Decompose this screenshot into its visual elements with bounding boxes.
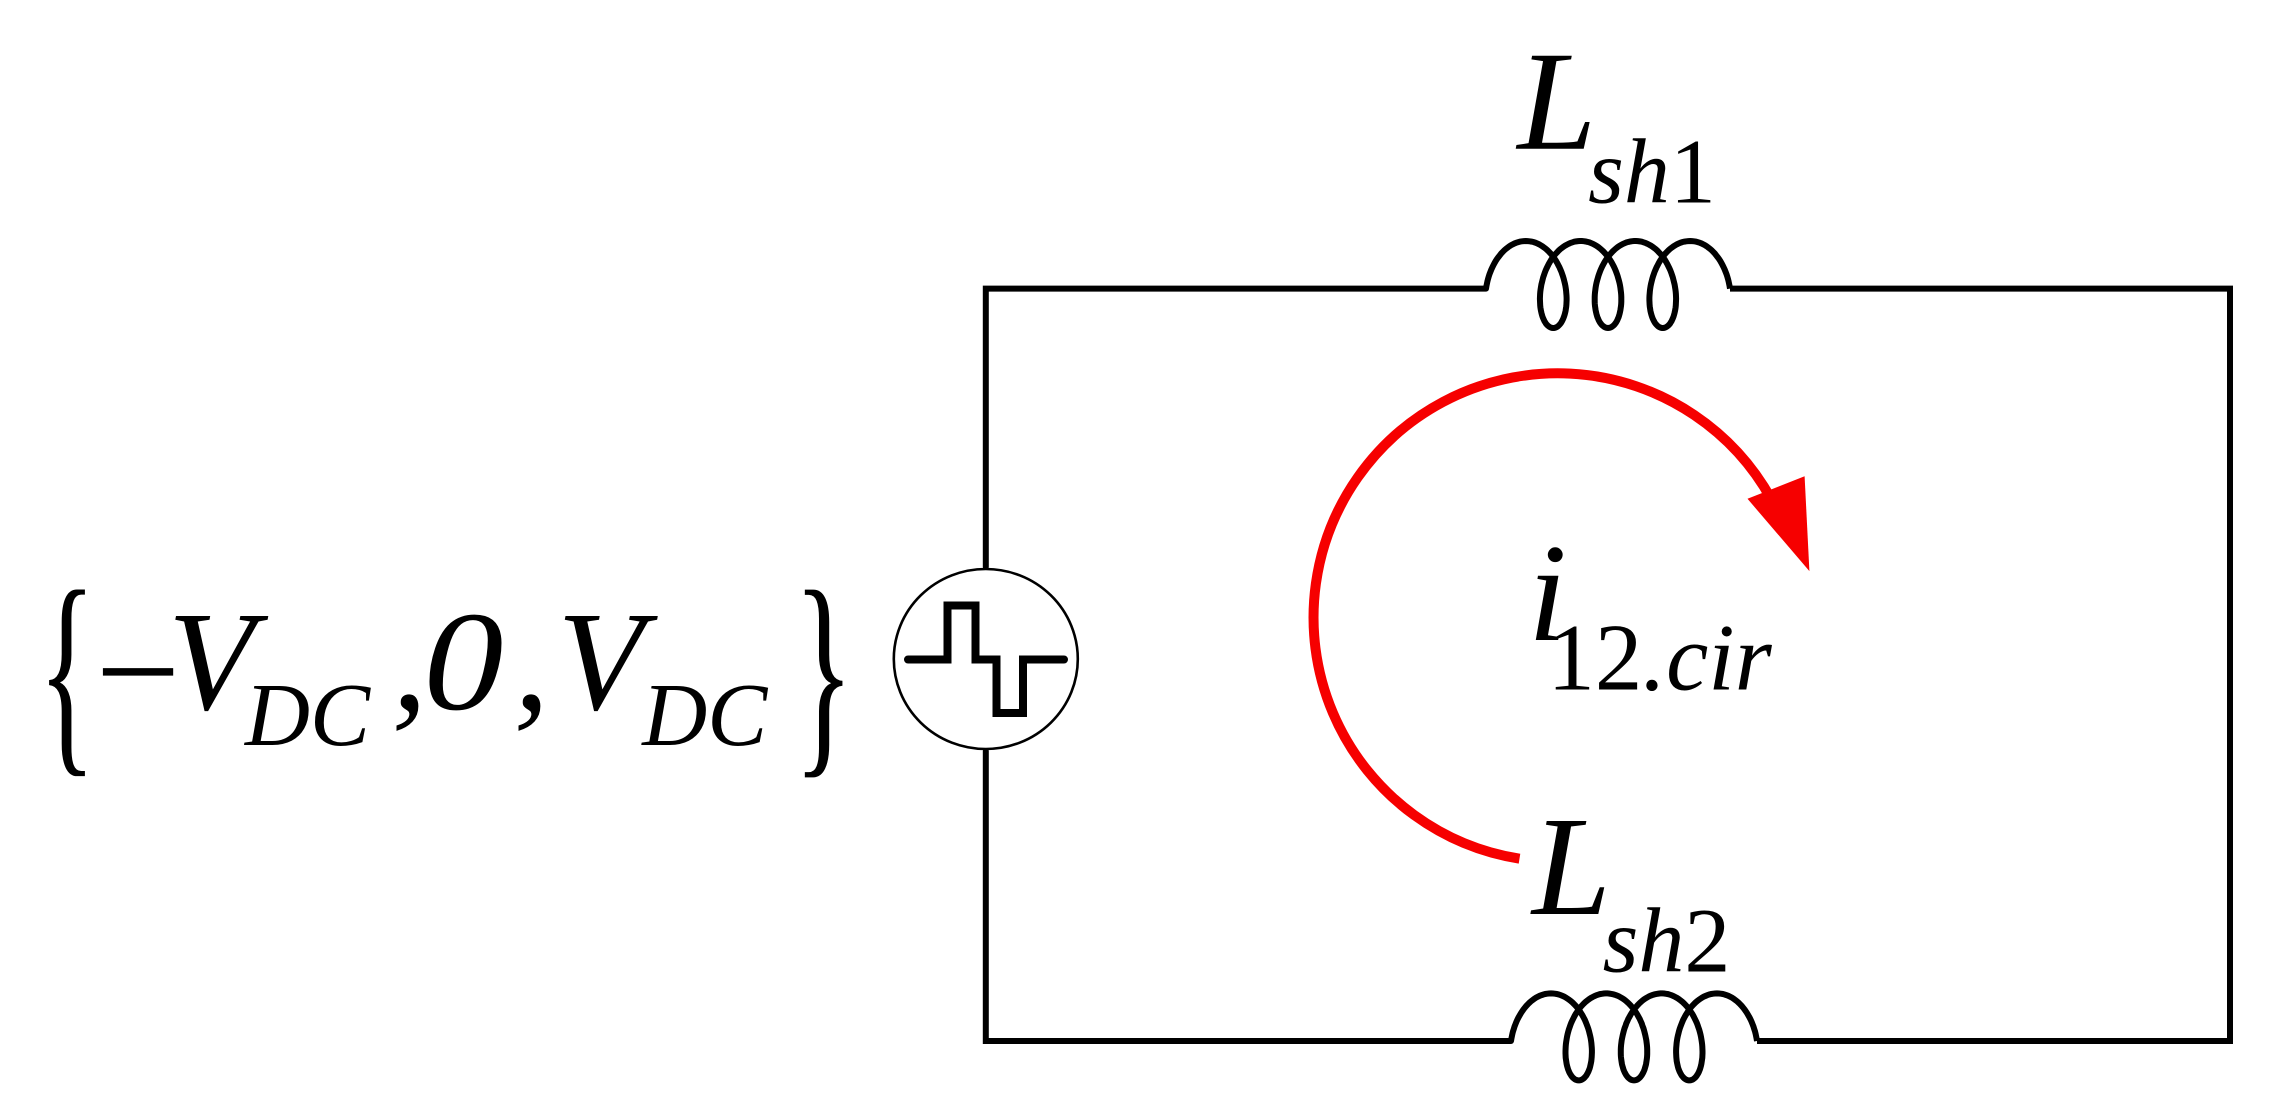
svg-text:,: , xyxy=(514,582,550,740)
label source levels: zero xyxy=(423,582,503,739)
svg-text:DC: DC xyxy=(640,666,768,765)
red loop-current arrowhead xyxy=(1748,476,1810,571)
label source levels: opening brace xyxy=(38,546,96,796)
svg-text:L: L xyxy=(1515,22,1596,180)
wire: Lsh1 to top-right corner, down right side, to bottom-right corner, across to inductor Lsh2 xyxy=(1730,289,2230,1041)
svg-text:12.cir: 12.cir xyxy=(1547,605,1772,711)
wire: Lsh2 to bottom-left corner, up to source bottom terminal xyxy=(986,751,1511,1041)
voltage source V1 circle xyxy=(894,569,1078,749)
inductor Lsh2 coil xyxy=(1511,993,1757,1080)
svg-text:DC: DC xyxy=(243,666,371,765)
svg-text:sh2: sh2 xyxy=(1603,889,1731,991)
label source levels: closing brace xyxy=(793,545,853,796)
svg-text:L: L xyxy=(1530,787,1611,945)
wire: source top terminal up to top-left corner, across to inductor Lsh1 xyxy=(986,289,1486,567)
svg-text:}: } xyxy=(793,545,853,796)
inductor Lsh1 coil xyxy=(1486,241,1730,328)
svg-text:sh1: sh1 xyxy=(1588,121,1716,223)
svg-text:{: { xyxy=(38,546,96,796)
source pulse waveform symbol xyxy=(908,606,1064,714)
red loop-current arrow arc (clockwise) xyxy=(1314,373,1772,858)
svg-text:,: , xyxy=(392,582,428,740)
svg-text:0: 0 xyxy=(423,582,503,739)
